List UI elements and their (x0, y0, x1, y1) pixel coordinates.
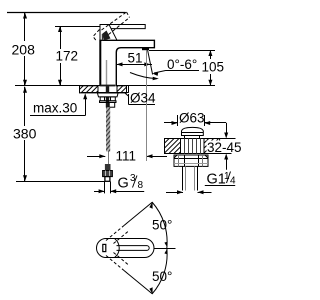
svg-text:3: 3 (130, 173, 136, 184)
svg-text:Ø63: Ø63 (179, 111, 205, 126)
svg-text:Ø34: Ø34 (130, 91, 156, 106)
svg-text:208: 208 (12, 42, 36, 58)
svg-text:8: 8 (138, 180, 144, 191)
svg-text:380: 380 (13, 125, 37, 141)
svg-text:0°-6°: 0°-6° (167, 57, 197, 72)
svg-text:105: 105 (202, 60, 225, 75)
svg-text:172: 172 (56, 49, 79, 64)
svg-text:51: 51 (128, 51, 143, 66)
svg-text:50°: 50° (152, 269, 172, 284)
svg-text:max.30: max.30 (33, 101, 77, 116)
svg-text:G: G (118, 175, 129, 191)
svg-text:50°: 50° (152, 218, 172, 233)
svg-text:32-45: 32-45 (207, 140, 242, 155)
svg-text:111: 111 (116, 149, 137, 164)
